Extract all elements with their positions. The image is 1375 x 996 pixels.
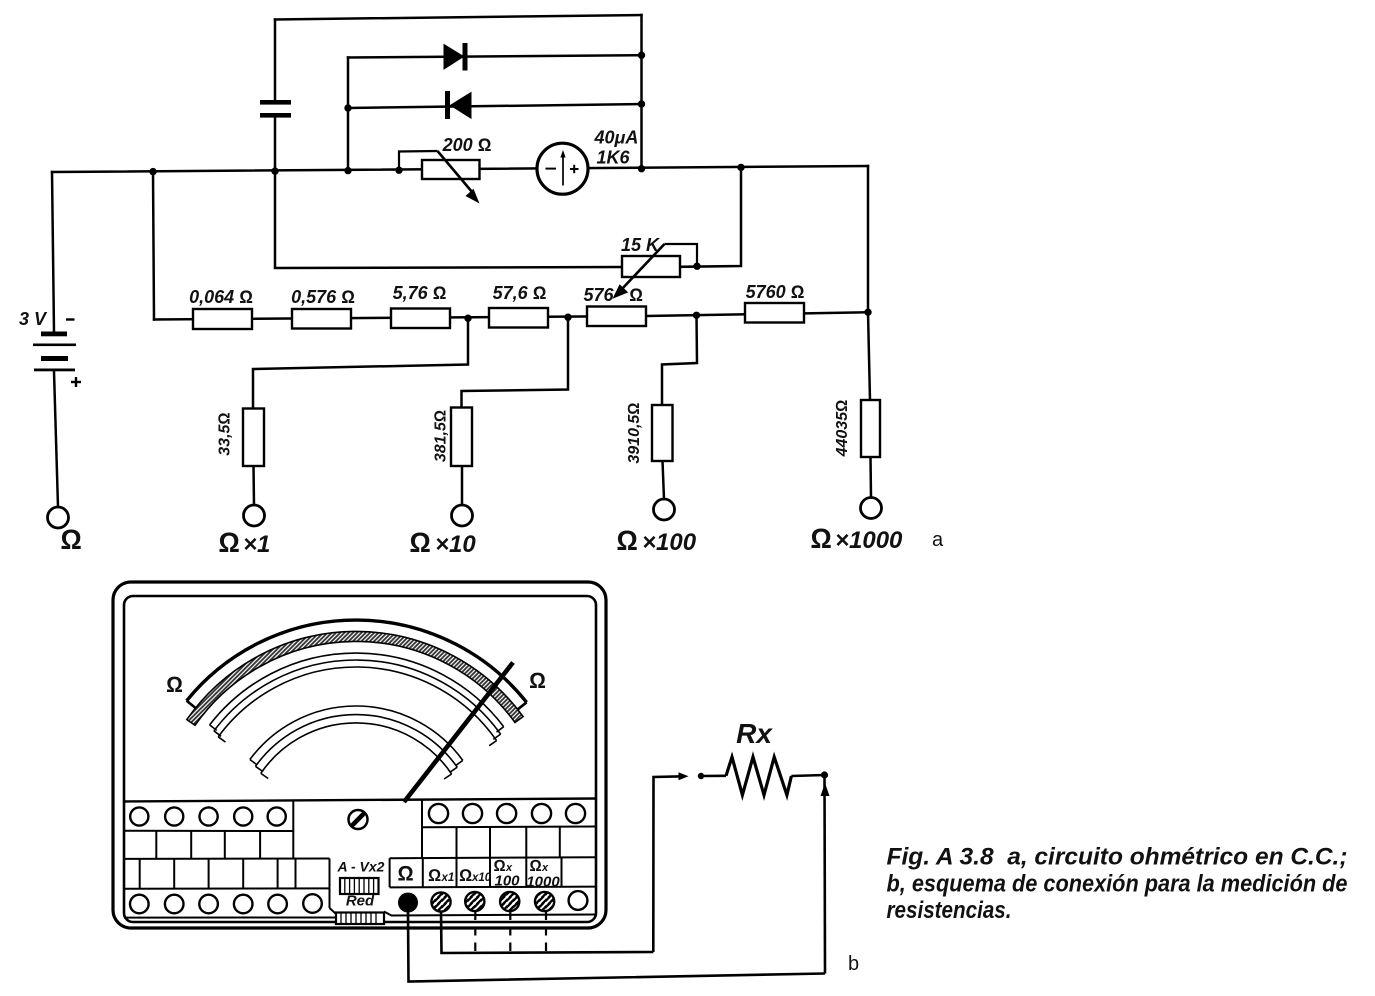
panel blocks top line bbox=[124, 799, 596, 802]
resistor 3910,5 vertical bbox=[652, 405, 673, 461]
wire: right end down bbox=[867, 166, 870, 312]
svg-text:576: 576 bbox=[583, 285, 614, 305]
wire: x1000 down bbox=[868, 312, 870, 400]
svg-text:×10: ×10 bbox=[435, 531, 476, 558]
left terminal block bbox=[124, 802, 340, 918]
right block top circles bbox=[429, 804, 585, 823]
svg-text:Ω: Ω bbox=[218, 527, 240, 558]
wire: right vertical bus bbox=[640, 15, 643, 169]
svg-text:33,5Ω: 33,5Ω bbox=[217, 412, 234, 455]
svg-text:57,6 Ω: 57,6 Ω bbox=[493, 283, 547, 303]
svg-text:5760 Ω: 5760 Ω bbox=[746, 282, 805, 302]
outer thick arc bbox=[187, 620, 527, 702]
resistor 381,5 vertical bbox=[451, 408, 472, 467]
svg-text:44035Ω: 44035Ω bbox=[834, 400, 851, 458]
svg-text:Red: Red bbox=[346, 893, 375, 910]
wire: x1 tap bbox=[253, 318, 468, 408]
needle bbox=[404, 663, 513, 803]
junction: 15K wiper tie bbox=[693, 263, 700, 270]
dot at Rx right bbox=[821, 771, 828, 778]
junction: battery tap on main line bbox=[149, 168, 156, 175]
svg-text:×1000: ×1000 bbox=[835, 527, 903, 554]
svg-text:Fig. A 3.8 a, circuito ohmétr: Fig. A 3.8 a, circuito ohmétrico en C.C.… bbox=[887, 844, 1348, 871]
terminal: ohm x10 bbox=[452, 505, 473, 526]
striped box 1 bbox=[340, 878, 379, 894]
right terminal block bbox=[390, 799, 596, 887]
svg-text:1000: 1000 bbox=[526, 874, 560, 891]
svg-text:Ω: Ω bbox=[409, 527, 431, 558]
svg-text:Ω: Ω bbox=[529, 668, 546, 693]
junction: D2 at left bus bbox=[344, 104, 351, 111]
left block bottom circles bbox=[130, 894, 322, 913]
svg-text:x: x bbox=[541, 862, 549, 874]
svg-text:40μA: 40μA bbox=[594, 128, 639, 148]
junction: chain tap x1000 bbox=[864, 309, 871, 316]
svg-text:200 Ω: 200 Ω bbox=[442, 135, 492, 155]
junction: diode branch on main line bbox=[344, 167, 351, 174]
terminal: common ohm bbox=[48, 507, 69, 528]
junction: capacitor branch on main line bbox=[271, 167, 278, 174]
wire: right vertical of Rx loop bbox=[823, 775, 826, 974]
junction: 15K branch on main line bbox=[737, 164, 744, 171]
wire: common black terminal loop bbox=[408, 913, 825, 982]
hatched band bbox=[187, 631, 523, 725]
svg-text:Ω: Ω bbox=[530, 858, 542, 875]
arrow up on right vertical bbox=[821, 783, 830, 796]
svg-text:1K6: 1K6 bbox=[597, 148, 631, 168]
resistor 33,5 vertical bbox=[243, 409, 264, 467]
svg-text:Ω: Ω bbox=[60, 524, 82, 555]
resistor R3 5,76 bbox=[391, 309, 450, 329]
screw bbox=[349, 810, 368, 829]
svg-text:Ω: Ω bbox=[428, 866, 441, 885]
svg-text:×1: ×1 bbox=[243, 531, 270, 558]
resistor R5 576 bbox=[587, 307, 646, 327]
svg-text:3910,5Ω: 3910,5Ω bbox=[626, 402, 643, 463]
resistor R6 5760 bbox=[745, 303, 804, 323]
svg-text:Ω: Ω bbox=[810, 523, 832, 554]
svg-text:A - Vx2: A - Vx2 bbox=[337, 859, 385, 875]
junction: D2 at right bus bbox=[638, 100, 645, 107]
wire: 15K right lead and up to main bbox=[680, 167, 741, 266]
thin arcs group 2 bbox=[250, 706, 463, 779]
shelf above striped box 2 bbox=[384, 912, 596, 916]
terminal circles row bbox=[398, 893, 418, 913]
dial scale arcs bbox=[187, 620, 527, 779]
wire: diode D1 branch bbox=[348, 55, 642, 57]
resistor Rx zigzag bbox=[726, 757, 791, 795]
terminal: ohm x1000 bbox=[861, 498, 882, 519]
wire: x10 tap bbox=[462, 317, 569, 407]
wire: x1 terminal loop bbox=[441, 912, 653, 954]
wire: diode D2 branch bbox=[348, 104, 642, 108]
svg-text:5,76 Ω: 5,76 Ω bbox=[393, 283, 447, 303]
panel outer case bbox=[113, 582, 606, 928]
panel inner face bbox=[124, 596, 596, 922]
svg-text:Ω: Ω bbox=[616, 525, 638, 556]
svg-text:Rx: Rx bbox=[736, 718, 773, 749]
svg-text:Ω: Ω bbox=[397, 863, 413, 886]
svg-text:x1: x1 bbox=[441, 872, 455, 884]
rheostat 200 ohm bbox=[399, 151, 438, 170]
wire: x100 tap bbox=[662, 315, 697, 405]
wire: capacitor branch vertical bbox=[274, 20, 277, 101]
wire: left diode vertical bbox=[347, 58, 350, 171]
svg-text:3 V: 3 V bbox=[19, 309, 48, 329]
svg-text:0,576 Ω: 0,576 Ω bbox=[291, 287, 355, 307]
left block top circles bbox=[130, 807, 286, 825]
svg-text:resistencias.: resistencias. bbox=[887, 897, 1012, 924]
junction: 200 ohm wiper on main line bbox=[395, 167, 402, 174]
junction: chain tap x100 bbox=[693, 312, 700, 319]
battery B1 3V bbox=[33, 332, 76, 372]
junction: chain tap x1 bbox=[464, 315, 471, 322]
svg-text:381,5Ω: 381,5Ω bbox=[433, 410, 450, 462]
junction: chain tap x10 bbox=[564, 314, 571, 321]
wire: top horizontal bbox=[275, 15, 642, 20]
svg-text:100: 100 bbox=[494, 873, 520, 890]
svg-text:b: b bbox=[848, 953, 859, 975]
arrow on wire to Rx bbox=[679, 772, 689, 780]
rheostat 15K bbox=[665, 244, 698, 266]
svg-text:b, esquema de conexión para la: b, esquema de conexión para la medición … bbox=[887, 871, 1348, 898]
terminal: ohm x100 bbox=[654, 499, 675, 520]
svg-text:Ω: Ω bbox=[459, 866, 472, 885]
svg-text:15 K: 15 K bbox=[621, 235, 661, 255]
svg-text:×100: ×100 bbox=[642, 529, 697, 556]
meter M 40uA bbox=[537, 143, 588, 194]
wire: battery column bbox=[52, 172, 54, 332]
svg-text:Ω: Ω bbox=[166, 672, 183, 697]
svg-text:x10: x10 bbox=[471, 872, 492, 884]
dashed terminal drops bbox=[475, 912, 546, 954]
resistor R4 57,6 bbox=[489, 308, 548, 328]
diode D2 (points left) bbox=[445, 91, 471, 119]
terminal: ohm x1 bbox=[244, 505, 265, 526]
junction: right bus on main line bbox=[638, 165, 645, 172]
junction: D1 at right bus bbox=[638, 52, 645, 59]
capacitor C bbox=[260, 100, 291, 118]
svg-text:a: a bbox=[932, 529, 944, 551]
striped box 2 bbox=[336, 913, 384, 925]
wire: resistor chain bbox=[154, 312, 868, 319]
wire: up to Rx bbox=[653, 776, 684, 952]
resistor R2 0,576 bbox=[292, 309, 351, 329]
resistor 44035 vertical bbox=[861, 400, 880, 457]
thin arcs group 1 bbox=[210, 653, 504, 746]
diode D1 (points right) bbox=[444, 43, 468, 71]
svg-text:0,064 Ω: 0,064 Ω bbox=[189, 287, 253, 307]
resistor R1 0,064 bbox=[193, 309, 252, 329]
svg-text:Ω: Ω bbox=[629, 285, 643, 305]
wire: battery tap down to chain bbox=[153, 172, 154, 320]
wire: main horizontal line bbox=[52, 166, 868, 172]
